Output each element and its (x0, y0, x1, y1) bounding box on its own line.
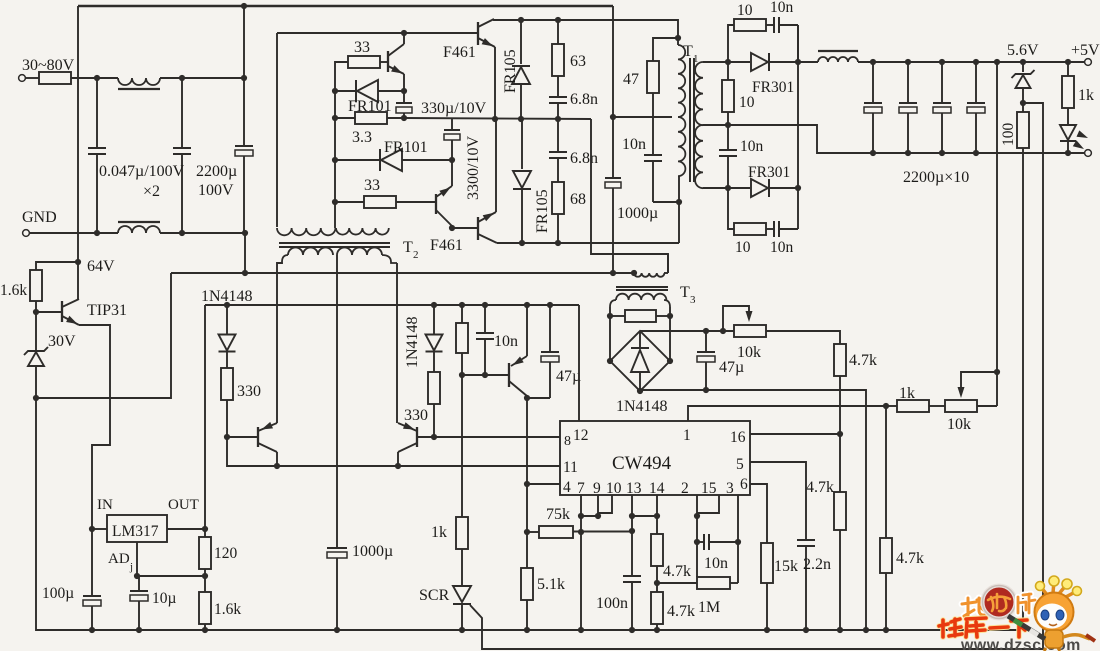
svg-text:100: 100 (1000, 123, 1017, 147)
transistor F461 lower (477, 217, 479, 240)
wire x277 left edge down to T2 (276, 33, 278, 227)
junction sec left (607, 313, 613, 319)
svg-text:15k: 15k (774, 558, 798, 575)
svg-text:F461: F461 (443, 44, 476, 61)
junction 100u bottom rail (89, 627, 95, 633)
transformer T2 primary (277, 228, 335, 235)
resistor R 33 lower (335, 201, 364, 203)
svg-text:2: 2 (413, 249, 419, 261)
wire pins 13 14 tie (631, 495, 633, 516)
svg-text:9: 9 (593, 480, 601, 497)
diode FR101 lower (335, 159, 380, 161)
svg-text:2.2n: 2.2n (803, 556, 831, 573)
junction 1000u bottom rail273 (610, 270, 616, 276)
junction base node D2 (431, 434, 437, 440)
resistor R 1k fb (886, 405, 897, 407)
resistor R 1k scr (461, 375, 463, 517)
junction x335 y118 (332, 115, 338, 121)
transformer T2 secondary (282, 255, 288, 262)
svg-text:15: 15 (701, 480, 717, 497)
wire pin3 (737, 495, 739, 542)
capacitor 47u T3 (705, 331, 707, 352)
transistor F461 upper (477, 22, 479, 45)
junction 100n bottom rail (629, 627, 635, 633)
capacitor 10n osc (697, 541, 704, 543)
junction 4.7k divider node (654, 580, 660, 586)
junction rail20 x521 (518, 17, 524, 23)
svg-text:100µ: 100µ (42, 585, 74, 602)
capacitor 10n primary snubber (652, 93, 654, 155)
wire LM317 out (167, 528, 205, 530)
wire top rail y6 (78, 5, 613, 7)
diode FR101 upper (335, 90, 356, 92)
wire T2 sec right down (396, 263, 398, 423)
svg-text:TIP31: TIP31 (87, 302, 127, 319)
svg-text:T: T (683, 43, 693, 60)
thyristor SCR (453, 586, 471, 602)
wire TIP31 emitter path (79, 325, 110, 529)
wire rect rail x798 (797, 25, 799, 229)
wire pins 2 15 tie (696, 495, 698, 516)
svg-text:10µ: 10µ (152, 590, 177, 607)
resistor R 4.7k pin16 (839, 434, 841, 492)
wire x697 down to 1M (696, 516, 698, 577)
capacitor 100n (631, 516, 633, 576)
junction pin13 tie (629, 513, 635, 519)
svg-text:3: 3 (726, 480, 734, 497)
capacitor C1 0.047u (96, 78, 98, 148)
svg-text:10n: 10n (704, 555, 728, 572)
svg-text:FR105: FR105 (534, 189, 551, 233)
svg-text:FR301: FR301 (748, 164, 790, 181)
svg-text:1M: 1M (698, 599, 720, 616)
diode FR301 upper (728, 61, 750, 63)
wire T1 bottom to rail242 (678, 176, 680, 243)
svg-text:13: 13 (626, 480, 642, 497)
capacitor 2200u #3 (939, 59, 945, 65)
wire midrail corner to T3 primary (591, 119, 668, 273)
junction input-C3 (241, 75, 247, 81)
wire x78 down to TIP31 collector (77, 6, 79, 299)
svg-text:10k: 10k (947, 416, 971, 433)
wire input rail y78 (160, 77, 244, 79)
wire rail y33 (277, 32, 478, 34)
junction sec top (725, 59, 731, 65)
junction 4.7k fb bottom rail (883, 627, 889, 633)
potentiometer 10k fb (945, 400, 977, 412)
junction 5.1k bottom rail (524, 627, 530, 633)
wire base D1 (227, 436, 258, 438)
resistor R 4.7k fb lower (885, 406, 887, 538)
svg-text:1.6k: 1.6k (214, 601, 241, 618)
junction T1 top (675, 35, 681, 41)
junction 120/1.6k node (202, 573, 208, 579)
junction sec bottom (725, 185, 731, 191)
junction x404 y91 (401, 88, 407, 94)
svg-text:1N4148: 1N4148 (616, 398, 668, 415)
transistor Q D2 pnp (416, 427, 418, 447)
svg-text:1000µ: 1000µ (617, 205, 658, 222)
svg-text:330: 330 (404, 407, 428, 424)
svg-text:5: 5 (736, 456, 744, 473)
svg-text:×2: ×2 (143, 183, 160, 200)
svg-text:SCR: SCR (419, 587, 450, 604)
watermark magnifier circle (983, 586, 1016, 619)
junction x581 bottom rail (578, 627, 584, 633)
wire T3 sec left (609, 307, 611, 316)
capacitor 10u (138, 576, 140, 591)
capacitor 47u softstart (547, 302, 553, 308)
svg-text:5.6V: 5.6V (1007, 42, 1039, 59)
junction T2 right node (449, 225, 455, 231)
junction midrail x558 (555, 116, 561, 122)
wire bridge minus rail (640, 390, 866, 630)
junction top rail x244 (241, 3, 247, 9)
ic U CW494 (560, 421, 750, 495)
svg-text:30V: 30V (48, 333, 76, 350)
diode FR105 upper (520, 20, 522, 64)
junction sec right (667, 313, 673, 319)
capacitor 1000u primary (612, 117, 614, 178)
junction D1 collector rail466 (274, 463, 280, 469)
junction pin14 tie (654, 513, 660, 519)
svg-text:FR101: FR101 (384, 139, 428, 156)
transformer T3 primary (634, 273, 664, 277)
junction pin7 tie (578, 513, 584, 519)
svg-text:1: 1 (683, 427, 691, 444)
svg-text:6: 6 (740, 476, 748, 493)
junction pin1/1k node (883, 403, 889, 409)
transformer T3 secondary (610, 300, 616, 307)
svg-text:11: 11 (563, 459, 578, 476)
transistor TIP31 (61, 301, 63, 322)
transformer T1 primary upper (677, 38, 679, 45)
capacitor C2 0.047u (181, 78, 183, 148)
svg-text:10: 10 (735, 239, 751, 256)
svg-text:1000µ: 1000µ (352, 543, 393, 560)
junction gnd-C2 (179, 230, 185, 236)
svg-text:CW494: CW494 (612, 453, 672, 474)
svg-text:68: 68 (570, 191, 586, 208)
junction x335 y160 (332, 157, 338, 163)
node +5V terminal (1085, 59, 1092, 66)
transistor Q3 (508, 363, 510, 387)
wire pin16 (750, 433, 840, 435)
resistor R 10 vertical (727, 62, 729, 80)
wire pin5 to 2.2n (750, 462, 806, 540)
wire pin1 feedback (688, 406, 886, 421)
svg-text:FR105: FR105 (502, 49, 519, 93)
svg-text:8: 8 (564, 434, 571, 449)
junction 10u bottom rail (136, 627, 142, 633)
capacitor 2200u #1 (870, 59, 876, 65)
junction x335 y202 (332, 199, 338, 205)
resistor R deadtime (459, 302, 465, 308)
wire F461 upper emitter down (494, 47, 496, 119)
junction 10n osc left (694, 539, 700, 545)
wire x205 rail305 to LM317 out (204, 305, 206, 529)
wire pin6 to 15k (750, 484, 767, 543)
junction zener/100 node (1020, 100, 1026, 106)
capacitor 10n top snubber (766, 24, 774, 26)
junction adj node (134, 573, 140, 579)
svg-text:6.8n: 6.8n (570, 150, 598, 167)
junction wiper node (994, 369, 1000, 375)
svg-text:64V: 64V (87, 258, 115, 275)
svg-text:47: 47 (623, 71, 639, 88)
svg-text:14: 14 (649, 480, 665, 497)
junction x657 bottom rail (654, 627, 660, 633)
resistor R 1M (657, 582, 697, 584)
svg-text:3.3: 3.3 (352, 129, 372, 146)
junction rail242 FR105 (519, 240, 525, 246)
capacitor 2200u #2 (905, 59, 911, 65)
capacitor 10n bottom snubber (766, 228, 774, 230)
resistor R 1.6k upper (30, 270, 42, 301)
wire x527 down to pin4 (526, 398, 528, 484)
resistor R 1k LED (1065, 59, 1071, 65)
svg-text:1k: 1k (899, 385, 915, 402)
wire bridge plus rail y331 (640, 330, 734, 332)
capacitor 330u/10V (403, 91, 405, 103)
wire T1 sec top tap (703, 61, 728, 63)
svg-text:FR301: FR301 (752, 79, 794, 96)
svg-text:T: T (680, 284, 690, 301)
wire 64V to 1.6k (36, 262, 78, 270)
junction 75k right x581 (578, 529, 584, 535)
junction Q3 collector node (524, 395, 530, 401)
svg-text:10: 10 (739, 94, 755, 111)
diode FR301 lower (728, 187, 750, 189)
junction rail33 x404 (401, 30, 407, 36)
svg-text:1k: 1k (1078, 87, 1094, 104)
junction sec centre R10 (725, 122, 731, 128)
junction base node TIP31 (33, 309, 39, 315)
diode FR105 lower (521, 119, 523, 169)
wire ground return rail y273 (171, 272, 634, 274)
wire rail y466 pin11 (227, 437, 560, 466)
wire T1 sec centre tap to output return (703, 125, 1085, 153)
pot wiper fb (961, 372, 997, 390)
watermark xin glyph in circle (988, 594, 1010, 611)
resistor R 47 (653, 38, 678, 61)
junction T3 primary left (631, 270, 637, 276)
capacitor 100u (91, 529, 93, 596)
node 0V output terminal (1085, 150, 1092, 157)
resistor R damp T3 (610, 315, 625, 317)
svg-text:3: 3 (690, 294, 696, 306)
potentiometer 10k T3 (720, 328, 726, 334)
watermark pian glyph (1018, 594, 1035, 613)
svg-text:4.7k: 4.7k (667, 603, 695, 620)
wire rail y437 pin8 (434, 436, 560, 438)
capacitor 2200u #4 (973, 59, 979, 65)
wire feedback +5V sense x997 (994, 59, 1000, 65)
inductor L2 (line filter bottom) (118, 226, 160, 233)
junction 64V node (75, 259, 81, 265)
svg-text:63: 63 (570, 53, 586, 70)
svg-text:100V: 100V (198, 182, 234, 199)
transformer T1 primary lower (678, 117, 685, 176)
resistor R 4.7k pin14 lower (656, 583, 658, 592)
svg-text:0.047µ/100V: 0.047µ/100V (99, 163, 185, 180)
junction 4.7k bottom rail (837, 627, 843, 633)
svg-text:4.7k: 4.7k (896, 550, 924, 567)
wire rail y20 (494, 19, 678, 38)
svg-text:330µ/10V: 330µ/10V (421, 100, 487, 117)
wire T2 sec left down (277, 262, 282, 423)
junction LED bottom (1065, 150, 1071, 156)
wire T1 sec bottom tap (703, 187, 728, 189)
svg-text:47µ: 47µ (556, 368, 581, 385)
wire mid rail y118-120 (404, 118, 591, 119)
svg-text:4.7k: 4.7k (806, 479, 834, 496)
wire zener node to rail273 (36, 273, 171, 398)
junction x205 bottom rail (202, 627, 208, 633)
junction gnd-C1 (94, 230, 100, 236)
wire x581 down (580, 516, 582, 630)
svg-text:12: 12 (573, 427, 589, 444)
resistor R 33 upper (335, 62, 348, 91)
rectifier bridge 1N4148 (607, 358, 613, 364)
transformer T1 secondary (695, 62, 703, 125)
svg-text:33: 33 (354, 39, 370, 56)
resistor R 330 cell1 (221, 368, 233, 400)
svg-text:10: 10 (606, 480, 622, 497)
svg-text:1N4148: 1N4148 (404, 316, 421, 368)
junction deadtime node (459, 372, 465, 378)
junction 15k bottom rail (764, 627, 770, 633)
capacitor C3 2200u/100V (243, 6, 245, 78)
transistor Q drive A (387, 51, 389, 72)
wire Q3 collector to 47u (527, 397, 550, 399)
junction pin4 node (524, 481, 530, 487)
watermark mascot (1008, 576, 1095, 651)
wire pin4 (527, 483, 560, 485)
wire T2 sec centre down to 1000u (336, 255, 338, 548)
junction T1 centre tap node (610, 114, 616, 120)
svg-text:47µ: 47µ (719, 359, 744, 376)
junction LM317 IN node (89, 526, 95, 532)
wire x613 top rail down to T1 centre (612, 6, 614, 117)
junction 10n bottom (482, 372, 488, 378)
junction pin16 node (837, 431, 843, 437)
junction midrail x521 (518, 116, 524, 122)
zener D 5.6V (1020, 59, 1026, 65)
transistor Q drive B (435, 194, 437, 214)
resistor R 120 (204, 529, 206, 537)
wire LM317 in (92, 528, 107, 530)
junction 1000u bottom rail (334, 627, 340, 633)
junction rect out bottom (795, 185, 801, 191)
svg-text:2200µ×10: 2200µ×10 (903, 169, 969, 186)
transformer T2 core (279, 242, 390, 244)
wire rail305 corner down pin12 (578, 305, 580, 421)
resistor R 4.7k T3 (834, 344, 846, 376)
junction rect out top (795, 59, 801, 65)
svg-text:1k: 1k (431, 524, 447, 541)
wire centre tap to T1 (613, 116, 672, 118)
wire pins 7 9 10 tie (580, 495, 582, 516)
node GND terminal (23, 230, 30, 237)
wire snubber right down (797, 25, 799, 62)
junction gnd-C3 (242, 230, 248, 236)
svg-text:2: 2 (681, 480, 689, 497)
junction x335 y91 (332, 88, 338, 94)
junction pin9 tie (595, 513, 601, 519)
svg-text:10: 10 (737, 2, 753, 19)
resistor R 10 top snubber (728, 25, 734, 62)
junction T1 bottom node (676, 199, 682, 205)
svg-text:1.6k: 1.6k (0, 282, 27, 299)
diode LED (1067, 108, 1069, 124)
wire rail y305 (205, 304, 579, 306)
svg-text:GND: GND (22, 209, 57, 226)
wire F461 lower emitter up (495, 120, 497, 212)
wire T3 sec right (669, 307, 671, 316)
svg-text:4.7k: 4.7k (849, 352, 877, 369)
wire T2 centre tap (334, 202, 336, 228)
wire x36 down to bottom rail (36, 398, 1023, 630)
watermark weikuyixia text (939, 619, 962, 637)
wire adj to divider (137, 575, 205, 577)
capacitor 3300/10V (451, 119, 453, 130)
wire output to inductor (798, 61, 818, 63)
wire SCR gate crowbar (470, 605, 1043, 649)
junction 47u2 bottom (703, 387, 709, 393)
inductor L3 output (818, 57, 858, 62)
svg-text:120: 120 (214, 545, 238, 562)
transformer T3 core (616, 286, 668, 288)
svg-text:7: 7 (577, 480, 585, 497)
diode 1N4148 cell2 (431, 302, 437, 308)
wire x335 column (334, 91, 336, 202)
wire deadtime node to Q3 base (462, 374, 509, 376)
svg-text:F461: F461 (430, 237, 463, 254)
capacitor 10n centre (727, 125, 729, 150)
wire bridge left arm (609, 316, 611, 361)
resistor R 68 (557, 162, 559, 182)
svg-text:10n: 10n (770, 0, 794, 16)
junction rail242 x558 (555, 240, 561, 246)
diode 1N4148 cell1 (224, 302, 230, 308)
resistor R 1.6k lower (204, 576, 206, 592)
svg-text:6.8n: 6.8n (570, 91, 598, 108)
svg-text:IN: IN (97, 497, 113, 513)
junction zener bottom (33, 395, 39, 401)
junction input-C2 (179, 75, 185, 81)
wire base TIP31 (36, 311, 62, 313)
svg-text:j: j (129, 561, 133, 573)
svg-text:+5V: +5V (1071, 42, 1100, 59)
capacitor 6.8n lower (557, 119, 559, 152)
svg-text:3300/10V: 3300/10V (465, 136, 482, 200)
wire snubber to T1 bottom (653, 201, 679, 203)
svg-text:10n: 10n (740, 138, 764, 155)
inductor L1 (line filter top) (118, 78, 160, 85)
junction x404 y118 (401, 115, 407, 121)
svg-text:10n: 10n (494, 333, 518, 350)
junction SCR cathode rail (459, 627, 465, 633)
junction bridge minus bottom rail (863, 627, 869, 633)
node 30~80V input terminal (19, 75, 26, 82)
fuse F (input) (26, 77, 40, 79)
resistor R 63 (557, 20, 559, 44)
transformer T1 core (689, 58, 691, 182)
svg-text:OUT: OUT (168, 497, 199, 513)
junction pin2 tie (694, 513, 700, 519)
svg-text:33: 33 (364, 177, 380, 194)
